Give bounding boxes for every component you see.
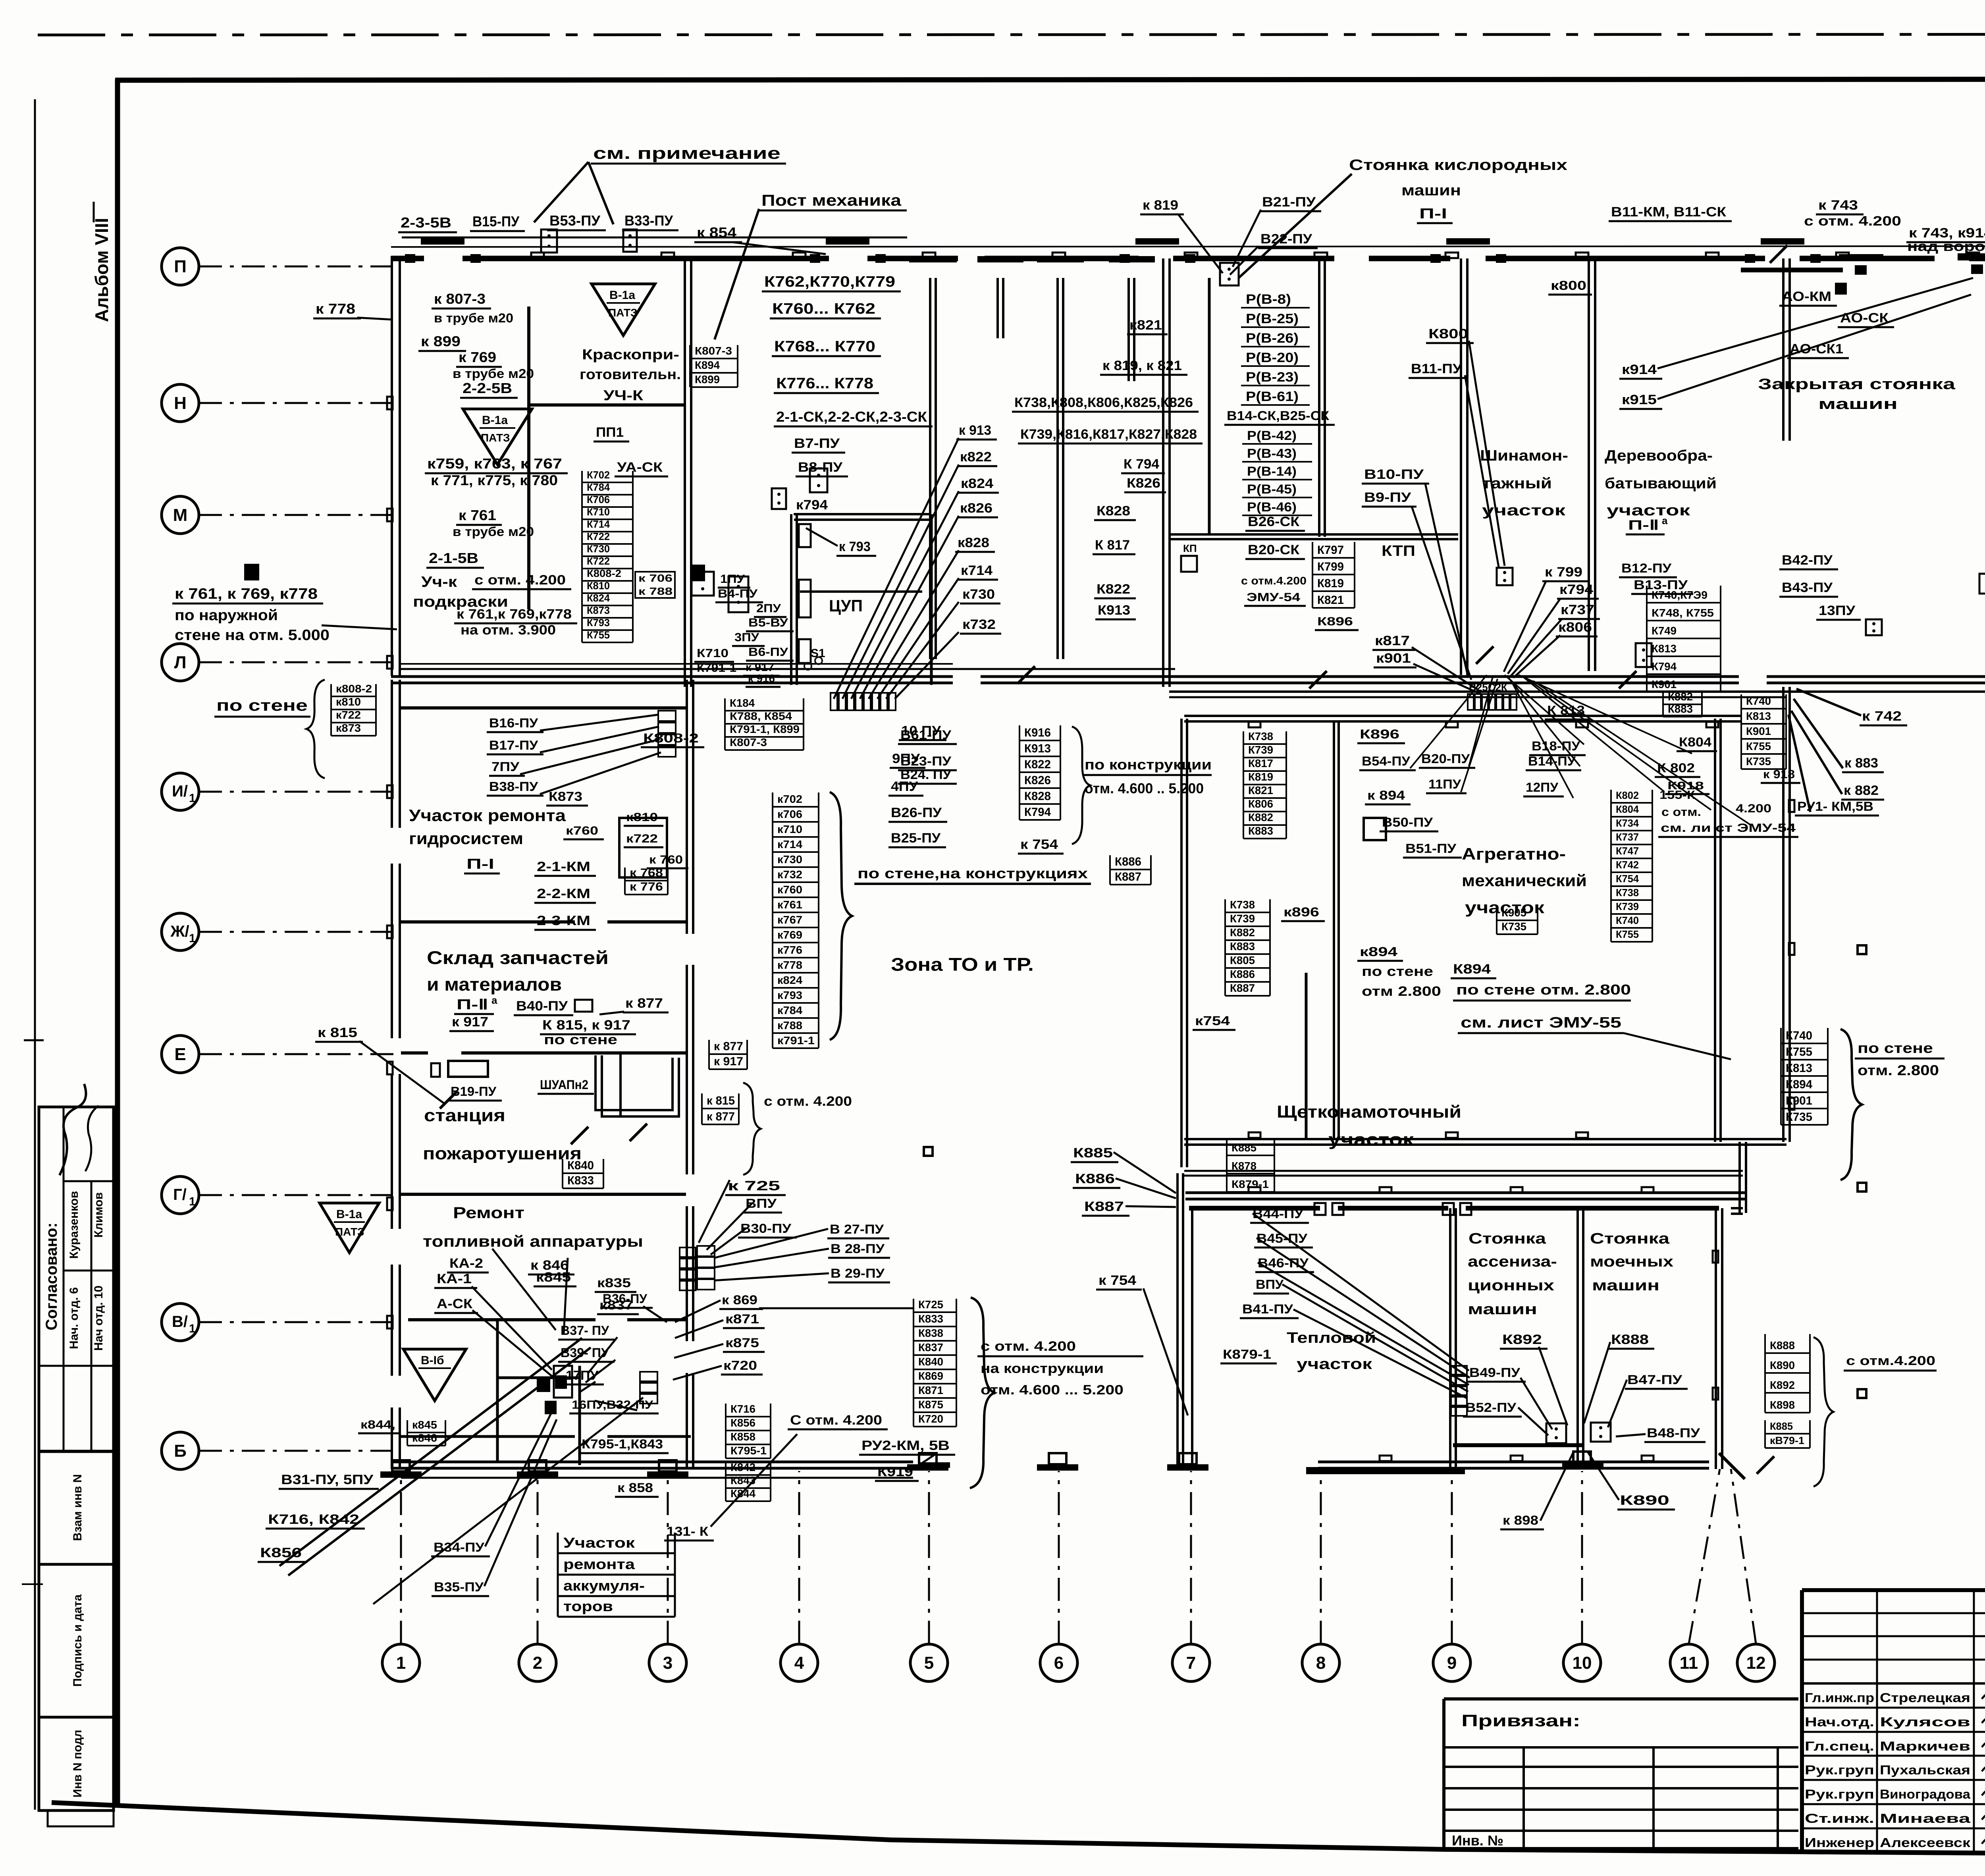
svg-text:Б: Б	[174, 1441, 187, 1461]
svg-text:К919: К919	[877, 1464, 913, 1479]
signature Кулясов	[1982, 1709, 1985, 1723]
PATZ triangle B-1b	[403, 1349, 466, 1401]
svg-text:ПАТЗ: ПАТЗ	[481, 432, 510, 444]
svg-text:к894: к894	[1360, 945, 1397, 959]
label B23-PU	[898, 754, 957, 770]
small box k706 k788	[635, 572, 675, 598]
control post	[1497, 568, 1513, 585]
svg-text:2-1-КМ: 2-1-КМ	[537, 859, 590, 874]
svg-text:Р(В-8): Р(В-8)	[1246, 292, 1291, 307]
svg-text:К885: К885	[1073, 1145, 1113, 1161]
svg-text:К 817: К 817	[1095, 538, 1130, 553]
cable list K807-3 group	[690, 345, 738, 387]
svg-text:к 899: к 899	[421, 333, 461, 349]
svg-text:К755: К755	[1786, 1045, 1812, 1059]
svg-text:К740: К740	[1786, 1029, 1812, 1042]
cable list aggregate east	[1611, 789, 1652, 942]
svg-text:машин: машин	[1401, 182, 1461, 199]
svg-text:К894: К894	[1453, 962, 1491, 977]
label EMU-54	[1244, 591, 1306, 606]
svg-text:к806: к806	[1558, 620, 1592, 635]
svg-text:моечных: моечных	[1590, 1253, 1673, 1270]
svg-text:Стоянка: Стоянка	[1590, 1230, 1670, 1247]
label k821	[1127, 318, 1168, 334]
svg-text:К799: К799	[1317, 560, 1344, 573]
terminal strip at KTP wall	[1468, 694, 1517, 710]
cable jog U near SHUAPN2	[595, 1055, 673, 1110]
svg-text:В-1а: В-1а	[336, 1208, 362, 1221]
svg-text:К840: К840	[567, 1159, 594, 1172]
label 2-1-KM	[534, 859, 596, 876]
svg-text:УА-СК: УА-СК	[617, 460, 663, 475]
svg-text:К739: К739	[1616, 900, 1639, 912]
label k845	[534, 1270, 576, 1286]
stamp column outer box upper	[39, 1107, 114, 1452]
svg-text:К795-1: К795-1	[730, 1444, 767, 1457]
svg-text:к875: к875	[725, 1336, 759, 1350]
svg-text:В35-ПУ: В35-ПУ	[434, 1580, 484, 1594]
black section mark paint room	[691, 565, 705, 581]
svg-text:К739: К739	[1248, 744, 1273, 756]
svg-text:9: 9	[1447, 1653, 1457, 1673]
svg-text:Р(В-25): Р(В-25)	[1246, 311, 1299, 326]
svg-text:К791-1, К899: К791-1, К899	[730, 723, 800, 735]
grid axis 11	[1670, 1644, 1707, 1681]
svg-text:В10-ПУ: В10-ПУ	[1364, 467, 1424, 482]
svg-text:отм. 2.800: отм. 2.800	[1858, 1062, 1939, 1078]
svg-text:К824: К824	[587, 592, 610, 604]
terminal strip at TsUP bottom	[831, 693, 896, 710]
label P-I oxygen	[1417, 205, 1453, 223]
svg-text:с отм. 4.200: с отм. 4.200	[1804, 214, 1901, 229]
svg-text:В42-ПУ: В42-ПУ	[1782, 553, 1833, 568]
label AO-SK	[1838, 310, 1894, 327]
leader B38	[540, 752, 661, 794]
label k894	[1365, 788, 1411, 804]
svg-text:Нач отд. 10: Нач отд. 10	[92, 1286, 105, 1351]
label 2-3-5V	[398, 214, 457, 232]
label k918	[1665, 779, 1709, 794]
parking rooms bottom sill y3640	[1453, 1443, 1584, 1447]
svg-text:К740: К740	[1616, 914, 1639, 926]
svg-text:ЦУП: ЦУП	[829, 596, 863, 615]
cable list po stene west	[331, 683, 376, 736]
svg-text:ВПУ: ВПУ	[746, 1196, 777, 1211]
svg-text:к 799: к 799	[1545, 565, 1582, 580]
axis line Г/1	[199, 1194, 392, 1196]
label B28-PU	[828, 1242, 890, 1258]
svg-text:К869: К869	[918, 1370, 943, 1382]
wall tire-shop left x3688	[1460, 258, 1462, 675]
PATZ triangle mid-left	[463, 409, 532, 465]
svg-text:Р(В-46): Р(В-46)	[1247, 500, 1297, 514]
wall woodshop right x4500 upper	[1782, 258, 1785, 441]
label k871	[723, 1312, 765, 1328]
partition sklad/E y2652	[401, 1051, 428, 1055]
label VPU g1	[743, 1196, 782, 1213]
grid axis 4	[781, 1644, 818, 1681]
label k793	[836, 539, 876, 556]
label k807-3	[432, 291, 491, 308]
grid axis 10	[1563, 1644, 1601, 1681]
svg-text:к 877: к 877	[625, 996, 663, 1011]
svg-text:П-I: П-I	[1419, 205, 1447, 222]
axis line Е	[199, 1053, 399, 1055]
svg-text:7ПУ: 7ПУ	[491, 760, 520, 774]
stamp bottom small box	[48, 1810, 114, 1826]
cable list K740 wood	[1647, 586, 1721, 692]
S1 circles	[804, 657, 822, 670]
svg-text:на отм. 3.900: на отм. 3.900	[461, 623, 556, 638]
label k916 small	[746, 672, 781, 687]
label 12PU	[1523, 780, 1564, 796]
label B48-PU	[1644, 1426, 1706, 1442]
svg-text:Стоянка кислородных: Стоянка кислородных	[1349, 157, 1567, 174]
partition y3470 KA room	[497, 1377, 580, 1379]
svg-text:Рук.груп: Рук.груп	[1805, 1763, 1874, 1777]
label AO-KM	[1779, 289, 1837, 306]
partition battery room x1460	[578, 1366, 581, 1465]
svg-text:участок: участок	[1607, 502, 1690, 519]
cable list at TsUP west	[582, 469, 633, 642]
svg-text:4: 4	[794, 1653, 804, 1673]
bottom band wall right y3690	[1318, 1461, 1709, 1463]
grid axis П	[162, 248, 199, 285]
svg-text:К735: К735	[1746, 755, 1771, 767]
partition fire station y3008	[401, 1193, 686, 1196]
leader post mekhanika	[715, 209, 759, 339]
svg-text:К804: К804	[1616, 803, 1639, 815]
svg-text:Г/: Г/	[173, 1186, 187, 1203]
svg-text:Стоянка: Стоянка	[1469, 1230, 1546, 1247]
control post	[1546, 1423, 1566, 1443]
oxygen room left wall x3046	[1208, 278, 1211, 534]
svg-text:8: 8	[1316, 1653, 1326, 1673]
axis line 1	[400, 1471, 402, 1644]
diagonal cable bottom-left c	[373, 1398, 643, 1604]
svg-text:к791-1: к791-1	[777, 1034, 815, 1047]
control post	[1591, 1423, 1611, 1442]
label k914	[1619, 362, 1662, 379]
leader 7PU	[520, 739, 660, 774]
label 7PU	[489, 760, 525, 776]
svg-text:2-1-5В: 2-1-5В	[429, 550, 478, 566]
svg-text:В 27-ПУ: В 27-ПУ	[830, 1222, 884, 1236]
svg-text:к 882: к 882	[1844, 783, 1879, 798]
grid axis 2	[519, 1644, 556, 1681]
paper top cut dash-dot line	[38, 34, 1985, 35]
svg-text:Инв N подл: Инв N подл	[71, 1730, 84, 1798]
svg-text:к 761,к 769,к778: к 761,к 769,к778	[457, 607, 572, 622]
label post mekhanika	[759, 192, 907, 210]
label 131-K	[664, 1524, 714, 1541]
svg-text:к826: к826	[960, 501, 992, 516]
svg-text:К807-3: К807-3	[730, 736, 767, 748]
label 4PU	[888, 779, 923, 796]
brush room bottom wall y3012	[1185, 1192, 1745, 1194]
svg-text:1: 1	[189, 1195, 196, 1208]
svg-text:К808-2: К808-2	[587, 567, 621, 579]
svg-text:К892: К892	[1770, 1379, 1795, 1391]
leaders k742 group	[1788, 689, 1861, 812]
svg-text:к 788: к 788	[638, 585, 673, 597]
signature Стрелецкая	[1982, 1685, 1985, 1699]
svg-text:В6-ПУ: В6-ПУ	[748, 646, 788, 659]
control post	[1220, 263, 1239, 285]
svg-text:к714: к714	[777, 838, 802, 850]
svg-text:к767: к767	[777, 914, 802, 926]
svg-text:Е: Е	[174, 1045, 186, 1064]
PATZ triangle G1	[320, 1203, 379, 1253]
axis line 6	[1058, 1471, 1060, 1644]
svg-text:Стрелецкая: Стрелецкая	[1880, 1691, 1970, 1705]
svg-text:В12-ПУ: В12-ПУ	[1621, 561, 1672, 575]
column fin x2520 top bar	[977, 256, 1023, 262]
TsUP room right wall	[930, 514, 933, 685]
label K738 group	[1012, 395, 1199, 412]
svg-text:В37- ПУ: В37- ПУ	[561, 1323, 609, 1338]
svg-text:машин: машин	[1592, 1277, 1659, 1294]
svg-text:В50-ПУ: В50-ПУ	[1382, 815, 1433, 829]
label A-SK	[434, 1296, 478, 1313]
label woodworking shop	[1605, 447, 1717, 519]
label k915	[1619, 392, 1662, 409]
svg-text:к722: к722	[336, 709, 361, 721]
grid axis 7	[1172, 1644, 1210, 1681]
cable list K888 group	[1765, 1334, 1810, 1413]
svg-text:Закрытая стоянка: Закрытая стоянка	[1758, 376, 1956, 393]
label 10PU	[899, 723, 946, 740]
leader B10	[1425, 484, 1468, 677]
svg-text:К710: К710	[587, 506, 610, 518]
label k760 a	[563, 824, 604, 839]
svg-text:В7-ПУ: В7-ПУ	[794, 436, 840, 451]
svg-text:В20-ПУ: В20-ПУ	[1421, 752, 1470, 766]
label B14-PU	[1526, 754, 1581, 770]
svg-text:В31-ПУ, 5ПУ: В31-ПУ, 5ПУ	[281, 1472, 374, 1487]
axis line 8	[1320, 1471, 1322, 1644]
label 2-2-5V	[460, 380, 518, 398]
svg-text:к810: к810	[336, 696, 361, 708]
label K885	[1071, 1145, 1118, 1162]
label B45-PU	[1254, 1231, 1313, 1247]
wall shuap x1563	[619, 1053, 622, 1116]
grid axis Б	[162, 1432, 199, 1469]
svg-text:В11-ПУ: В11-ПУ	[1411, 361, 1462, 376]
svg-text:отм. 4.600 .. 5.200: отм. 4.600 .. 5.200	[1085, 780, 1204, 796]
svg-text:В 28-ПУ: В 28-ПУ	[831, 1242, 885, 1256]
svg-text:К738: К738	[1248, 730, 1273, 742]
label k761 otm3900	[454, 607, 577, 623]
control post	[692, 572, 714, 596]
leader k914	[1657, 278, 1973, 368]
label k761	[456, 507, 502, 525]
axis line 12 slanted	[1731, 1469, 1756, 1644]
label B39-PU	[558, 1346, 615, 1362]
svg-text:В20-СК: В20-СК	[1248, 542, 1299, 557]
svg-text:11ПУ: 11ПУ	[1428, 777, 1461, 791]
black device blob b	[555, 1375, 567, 1389]
wall band bottom (L axis) y1712	[391, 675, 953, 678]
svg-text:Участок ремонта: Участок ремонта	[409, 806, 566, 825]
label B44-PU	[1250, 1207, 1309, 1223]
column fin x2671 top bar	[1037, 256, 1084, 262]
svg-text:торов: торов	[563, 1598, 613, 1614]
cable list K842 group	[726, 1461, 771, 1501]
axis line И/1	[199, 791, 392, 793]
brace K725 group	[970, 1298, 994, 1488]
svg-text:к 761, к 769, к778: к 761, к 769, к778	[175, 586, 318, 602]
svg-text:к 815: к 815	[707, 1094, 735, 1107]
svg-text:КП: КП	[1183, 542, 1197, 554]
svg-text:В51-ПУ: В51-ПУ	[1405, 841, 1457, 856]
svg-text:В 29-ПУ: В 29-ПУ	[831, 1266, 885, 1280]
svg-text:ассениза-: ассениза-	[1468, 1253, 1557, 1270]
svg-text:К806: К806	[1248, 798, 1273, 810]
svg-text:К794: К794	[1652, 660, 1677, 673]
axis line 5	[928, 1471, 930, 1644]
svg-text:к 793: к 793	[839, 539, 871, 554]
svg-text:стене на отм. 5.000: стене на отм. 5.000	[175, 627, 330, 644]
svg-text:3: 3	[663, 1653, 673, 1673]
svg-text:к 917: к 917	[452, 1014, 488, 1030]
svg-text:К791-1: К791-1	[697, 661, 736, 675]
svg-text:2: 2	[533, 1653, 542, 1673]
svg-text:К821: К821	[1317, 594, 1344, 607]
svg-text:Н: Н	[174, 393, 187, 413]
label KA-2	[447, 1256, 489, 1273]
cable list K716 group	[726, 1403, 771, 1458]
label B7-PU	[792, 436, 845, 453]
svg-text:К840: К840	[918, 1355, 943, 1368]
aggregate room left wall x2983	[1180, 719, 1183, 1167]
label k826 fan	[958, 501, 998, 517]
svg-text:к817: к817	[1375, 633, 1410, 648]
svg-text:к737: к737	[1561, 602, 1594, 617]
svg-text:к 877: к 877	[714, 1040, 743, 1053]
label B19-PU	[448, 1084, 502, 1101]
svg-text:В18-ПУ: В18-ПУ	[1532, 739, 1580, 753]
label B33-PU	[622, 212, 678, 230]
svg-text:К819: К819	[1317, 577, 1344, 590]
pilasters brush room bottom	[1249, 1187, 1260, 1193]
svg-text:см. лист ЭМУ-55: см. лист ЭМУ-55	[1461, 1014, 1621, 1031]
label K808-2	[641, 731, 704, 747]
label k725	[725, 1178, 786, 1195]
device B30-PU cluster	[680, 1246, 715, 1290]
svg-text:К901: К901	[1786, 1094, 1812, 1107]
svg-text:к901: к901	[1376, 651, 1411, 666]
svg-text:В9-ПУ: В9-ПУ	[1364, 490, 1411, 505]
label heat shop	[1287, 1330, 1376, 1373]
svg-text:А-СК: А-СК	[437, 1296, 472, 1311]
cable list K916 group	[1019, 725, 1060, 820]
svg-text:к844,: к844,	[360, 1418, 395, 1431]
label k819 top	[1140, 198, 1184, 214]
label K828 r	[1094, 503, 1136, 520]
svg-text:к800: к800	[1551, 278, 1586, 293]
svg-text:К813: К813	[1786, 1062, 1812, 1075]
svg-text:13ПУ: 13ПУ	[1819, 603, 1856, 618]
svg-text:к 877: к 877	[707, 1110, 735, 1123]
leader B17	[540, 727, 659, 752]
svg-text:К844: К844	[730, 1487, 755, 1500]
svg-text:к760: к760	[566, 824, 598, 837]
svg-text:Деревообра-: Деревообра-	[1605, 447, 1713, 464]
device B16/B17 stack west	[658, 711, 676, 757]
svg-text:К887: К887	[1230, 982, 1255, 994]
label B52-PU	[1463, 1400, 1522, 1417]
svg-text:В22-ПУ: В22-ПУ	[1260, 231, 1312, 247]
svg-text:К894: К894	[1786, 1078, 1812, 1091]
svg-text:к784: к784	[777, 1004, 802, 1016]
svg-text:Минаева: Минаева	[1880, 1811, 1970, 1826]
stamp row line b	[64, 1270, 114, 1272]
svg-text:2ПУ: 2ПУ	[756, 602, 781, 615]
label parking wash	[1590, 1230, 1673, 1294]
label k720	[721, 1358, 763, 1375]
svg-text:участок: участок	[1328, 1130, 1414, 1149]
label K894 c	[1451, 962, 1496, 978]
label B16-PU	[487, 716, 543, 732]
svg-text:участок: участок	[1297, 1356, 1372, 1373]
black device blob a	[537, 1377, 550, 1392]
cable list po stene east	[1781, 1028, 1828, 1125]
grid axis Ж/1	[162, 913, 199, 951]
KP box	[1181, 556, 1197, 572]
label B10-PU	[1362, 467, 1429, 484]
svg-text:К822: К822	[1097, 582, 1130, 597]
label RU1-KM	[1795, 799, 1879, 816]
leader B35	[484, 1419, 557, 1586]
svg-text:Маркичев: Маркичев	[1880, 1739, 1970, 1753]
bottom sill line left building	[401, 1477, 913, 1479]
label B54-PU	[1359, 754, 1416, 770]
label B37-PU	[558, 1323, 615, 1340]
svg-text:Инженер: Инженер	[1805, 1836, 1874, 1850]
svg-text:К901: К901	[1652, 678, 1677, 690]
svg-text:к 761: к 761	[459, 507, 496, 523]
svg-text:к 917: к 917	[746, 661, 774, 673]
drawing frame top border	[115, 79, 1985, 80]
svg-text:К776... К778: К776... К778	[776, 375, 873, 392]
label B36-PU	[600, 1292, 653, 1308]
axis line Ж/1	[199, 931, 392, 933]
svg-text:к 883: к 883	[1844, 756, 1878, 771]
svg-text:Привязан:: Привязан:	[1461, 1711, 1580, 1730]
svg-text:К710: К710	[697, 647, 728, 660]
svg-text:К706: К706	[587, 494, 610, 505]
svg-text:Тепловой: Тепловой	[1287, 1330, 1376, 1346]
svg-text:к714: к714	[961, 563, 992, 578]
aggregate inner wall low x3290	[1305, 973, 1308, 1139]
svg-text:к 858: к 858	[617, 1481, 653, 1495]
label B15-PU	[470, 213, 525, 231]
svg-text:к915: к915	[1622, 392, 1657, 407]
leader k819 top	[1178, 214, 1223, 273]
label k815	[315, 1025, 363, 1042]
device B19-PU box	[448, 1061, 488, 1077]
footing T at axis 1	[380, 1471, 422, 1478]
svg-text:РУ2-КМ, 5В: РУ2-КМ, 5В	[861, 1438, 950, 1453]
stamp box inv n podl	[39, 1717, 114, 1810]
partition y3618 KA room	[401, 1435, 575, 1438]
wall paint room divider x1332	[527, 307, 530, 609]
svg-text:6: 6	[1054, 1653, 1064, 1673]
svg-text:К 794: К 794	[1124, 457, 1159, 472]
svg-text:К788, К854: К788, К854	[730, 710, 792, 722]
svg-text:Р(В-61): Р(В-61)	[1246, 389, 1299, 404]
